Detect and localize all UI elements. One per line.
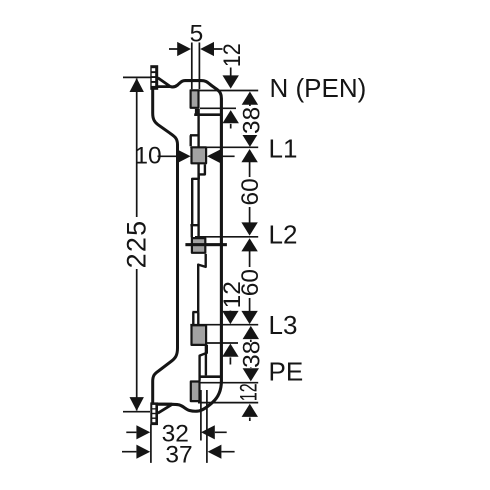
reference line below L3 block (207, 342, 238, 344)
shelf below N block (194, 113, 221, 116)
hook below L1 (192, 164, 205, 225)
reference line below N block (200, 107, 236, 109)
svg-text:38: 38 (238, 107, 265, 134)
svg-text:L2: L2 (269, 220, 298, 250)
bottom mounting flange (perforated strip) (150, 402, 158, 425)
bottom gusset of flange (158, 404, 172, 413)
step above L3 (192, 312, 198, 324)
hook below L3 (200, 345, 207, 381)
step above L2 (190, 225, 198, 237)
top gusset of flange (158, 78, 171, 87)
dimension 60 upper (249, 162, 251, 223)
extension lines bottom (151, 390, 207, 463)
terminal L2 block (192, 238, 205, 253)
svg-text:38: 38 (238, 341, 265, 368)
dimension 5 (169, 48, 231, 50)
svg-text:N (PEN): N (PEN) (270, 73, 367, 103)
terminal PE block (191, 382, 200, 402)
dimension 32 (126, 431, 226, 433)
svg-text:12: 12 (218, 43, 246, 67)
svg-text:5: 5 (190, 21, 204, 48)
terminal N (PEN) block (191, 90, 199, 108)
top mounting flange (perforated strip) (150, 65, 158, 90)
svg-text:37: 37 (165, 442, 192, 469)
svg-text:L3: L3 (269, 310, 298, 340)
dimension 37 (122, 451, 235, 453)
busbar tab at L2 (185, 243, 227, 246)
dimension 10 (158, 155, 235, 157)
reference line bottom edge (198, 402, 258, 404)
terminal L3 block (192, 325, 207, 345)
svg-text:L1: L1 (269, 133, 298, 163)
svg-text:225: 225 (122, 220, 152, 269)
svg-text:10: 10 (134, 142, 161, 169)
dimension 12 top (230, 49, 232, 76)
extension lines for 5 (192, 43, 200, 90)
dimension 38 top (249, 104, 251, 134)
slot wall below L3 (205, 345, 207, 376)
svg-text:12: 12 (219, 281, 246, 308)
outer left wall (153, 89, 178, 403)
reference line N (190, 90, 259, 92)
reference line PE (198, 382, 258, 384)
dimension 60 lower (249, 251, 251, 311)
dimension 12 below PE (242, 404, 258, 417)
reference line L2 (195, 236, 258, 238)
hook below L2 (198, 254, 206, 312)
svg-text:60: 60 (237, 178, 264, 205)
shelf above PE (199, 375, 221, 378)
dimension 38 bottom (250, 340, 252, 368)
terminal L1 block (192, 147, 207, 163)
dimension 12 above L3 (229, 281, 231, 310)
svg-text:12: 12 (235, 383, 262, 401)
reference line L1 (190, 146, 258, 148)
outer top contour, right wall and bottom wave (158, 81, 222, 412)
dimension 225 (123, 77, 151, 411)
channel inner wall N to L2 (190, 109, 199, 238)
svg-text:PE: PE (269, 357, 304, 387)
reference line L3 (190, 324, 258, 326)
